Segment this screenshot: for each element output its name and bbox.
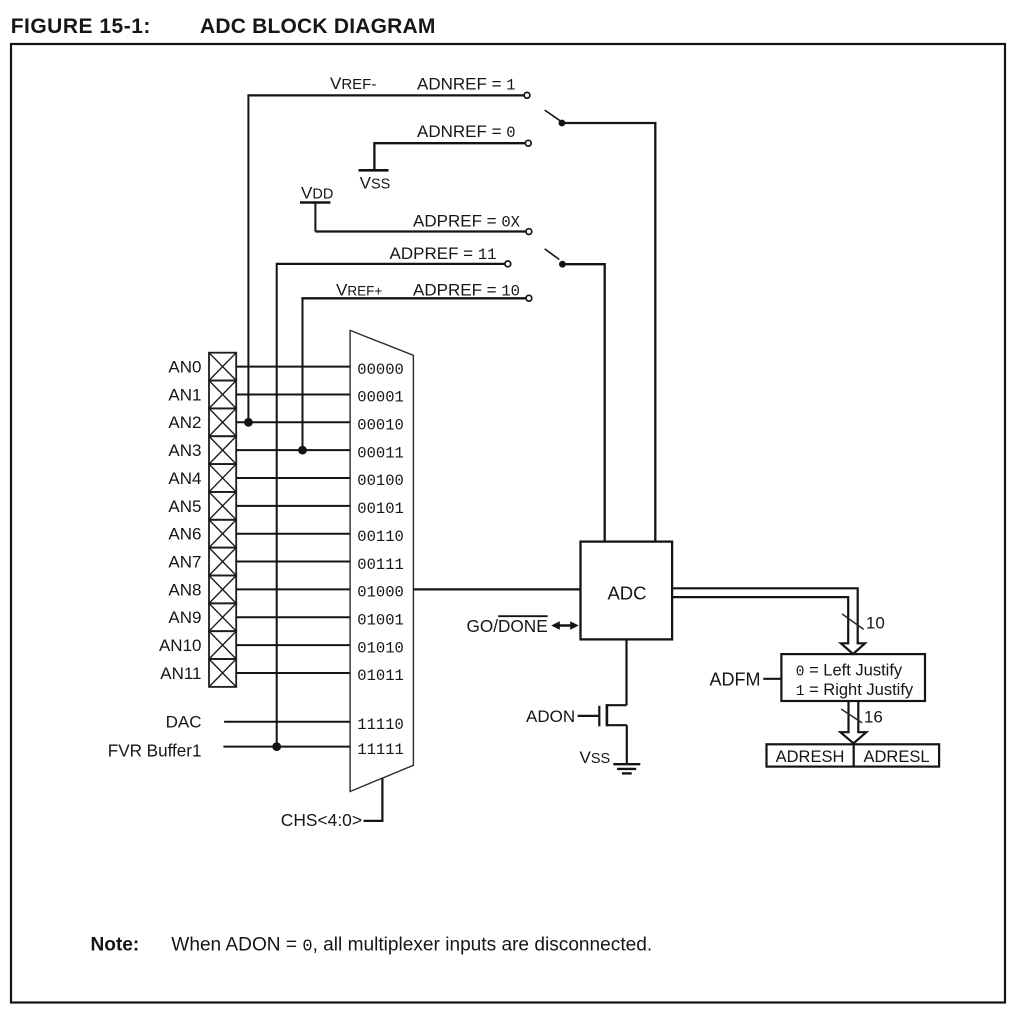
wire AN1 to mux [236,393,350,395]
wire AN6 to mux [236,533,350,535]
wire transistor source to ground [626,725,628,764]
input pin AN7 [168,548,236,576]
wire VREF+ vertical to AN3 [302,297,304,450]
switch SW2 blade [545,249,560,260]
register ADRESH / ADRESL [767,744,940,766]
wire mux output to ADC [413,588,580,590]
svg-text:When ADON = 0, all multiplexer: When ADON = 0, all multiplexer inputs ar… [171,934,652,956]
svg-text:01011: 01011 [357,667,404,685]
junction dot VREF- / AN2 [244,418,253,427]
wire VREF- vertical to AN2 [247,94,249,422]
svg-text:0 = Left Justify: 0 = Left Justify [796,661,903,680]
svg-text:ADPREF = 11: ADPREF = 11 [390,244,497,264]
input pin AN3 [168,436,236,464]
svg-text:ADNREF = 0: ADNREF = 0 [417,122,516,142]
svg-text:00111: 00111 [357,556,404,574]
svg-text:00011: 00011 [357,444,404,462]
svg-text:ADC: ADC [607,582,646,603]
junction dot SW1 pole [559,120,566,127]
svg-text:AN1: AN1 [168,385,201,404]
svg-text:VREF+: VREF+ [336,280,382,299]
svg-text:AN7: AN7 [168,553,201,572]
svg-text:AN4: AN4 [168,469,201,488]
bus arrow 10-bit from ADC [672,588,865,654]
wire CHS select [364,778,383,821]
svg-text:16: 16 [864,708,883,727]
svg-text:ADON: ADON [526,707,575,726]
figure title [11,15,436,38]
svg-text:00001: 00001 [357,389,404,407]
svg-text:AN6: AN6 [168,525,201,544]
svg-text:ADFM: ADFM [710,669,761,689]
input pin AN11 [160,659,236,687]
wire ADC to transistor drain [625,639,627,705]
input pin AN9 [168,603,236,631]
terminal circle ADNREF=1 [524,92,530,98]
wire AN10 to mux [236,644,350,646]
svg-text:01010: 01010 [357,639,404,657]
svg-text:00101: 00101 [357,500,404,518]
svg-text:VSS: VSS [580,748,611,767]
terminal circle ADPREF=11 [505,261,511,267]
transistor Q1 (NMOS) [578,704,627,726]
input pin AN2 [168,408,236,436]
wire SW2 pole to ADC [562,264,604,541]
terminal circle ADPREF=10 [526,295,532,301]
svg-text:FIGURE 15-1:: FIGURE 15-1: [11,15,151,38]
wire AN9 to mux [236,616,350,618]
svg-text:00110: 00110 [357,528,404,546]
power VDD symbol [300,183,333,231]
svg-text:AN9: AN9 [168,608,201,627]
wire AN0 to mux [236,366,350,368]
wire AN3 to mux [236,449,350,451]
terminal circle ADNREF=0 [525,140,531,146]
svg-text:ADRESH: ADRESH [776,748,845,766]
terminal circle ADPREF=0X [526,229,532,235]
wire SW1 pole to ADC [562,123,655,542]
svg-text:AN8: AN8 [168,580,201,599]
svg-text:ADC BLOCK DIAGRAM: ADC BLOCK DIAGRAM [200,15,436,38]
input pin AN4 [168,464,236,492]
bus width slash 16 [841,708,883,727]
wire AN5 to mux [236,505,350,507]
svg-text:FVR Buffer1: FVR Buffer1 [108,741,202,760]
wire FVR Buffer1 to mux [223,746,350,748]
input pin AN5 [168,492,236,520]
block ADFM justify [781,654,925,701]
wire AN2 to mux [236,421,350,423]
block ADC [581,542,673,640]
wire ADPREF=0X [315,230,525,232]
wire AN11 to mux [236,672,350,674]
input pin AN6 [168,520,236,548]
label GO/DONE with overline [467,616,548,636]
svg-text:VSS: VSS [360,174,391,193]
ground VSS bar (upper) [359,170,391,192]
svg-text:AN3: AN3 [168,441,201,460]
bidirectional arrow GO/DONE [551,621,579,630]
svg-text:Note:: Note: [91,934,140,955]
wire AN4 to mux [236,477,350,479]
svg-text:AN2: AN2 [168,413,201,432]
multiplexer body [350,330,413,791]
input pin AN1 [168,381,236,409]
svg-text:CHS<4:0>: CHS<4:0> [281,810,362,830]
wire ADPREF=11 horizontal [277,263,505,265]
bus arrow 16-bit to result registers [840,701,866,743]
input pin AN10 [159,631,236,659]
svg-text:01000: 01000 [357,584,404,602]
svg-text:ADPREF = 0X: ADPREF = 0X [413,211,521,231]
ground symbol (earth) [613,764,640,773]
svg-text:11111: 11111 [357,741,404,759]
svg-text:AN10: AN10 [159,636,202,655]
svg-text:00010: 00010 [357,417,404,435]
wire VREF- horizontal [248,94,523,96]
svg-text:VREF-: VREF- [330,74,376,93]
wire AN7 to mux [236,561,350,563]
svg-text:00000: 00000 [357,361,404,379]
wire ADPREF=10 [303,297,526,298]
wire ADPREF=11 vertical to FVR [276,263,278,747]
bus width slash 10 [842,614,885,633]
svg-text:VDD: VDD [301,183,333,202]
input pin AN0 [168,353,236,381]
wire ADNREF=0 [374,143,525,169]
junction dot VREF+ / AN3 [298,446,307,455]
wire AN8 to mux [236,588,350,590]
svg-text:ADNREF = 1: ADNREF = 1 [417,75,516,95]
svg-text:DAC: DAC [166,712,202,731]
svg-text:01001: 01001 [357,612,404,630]
note text [91,934,653,956]
wire DAC to mux [224,721,350,723]
svg-text:AN11: AN11 [160,664,201,683]
svg-text:1 = Right Justify: 1 = Right Justify [796,681,914,700]
svg-text:10: 10 [866,614,885,633]
switch SW1 blade [545,110,560,121]
input pin AN8 [168,575,236,603]
svg-text:00100: 00100 [357,472,404,490]
svg-text:GO/DONE: GO/DONE [467,616,548,636]
svg-text:ADRESL: ADRESL [863,748,929,766]
wire ADFM to block [763,678,782,680]
junction dot SW2 pole [559,261,566,268]
junction dot FVR / ADPREF=11 [272,742,281,751]
svg-text:AN0: AN0 [168,358,201,377]
svg-text:11110: 11110 [357,716,404,734]
svg-text:AN5: AN5 [168,497,201,516]
